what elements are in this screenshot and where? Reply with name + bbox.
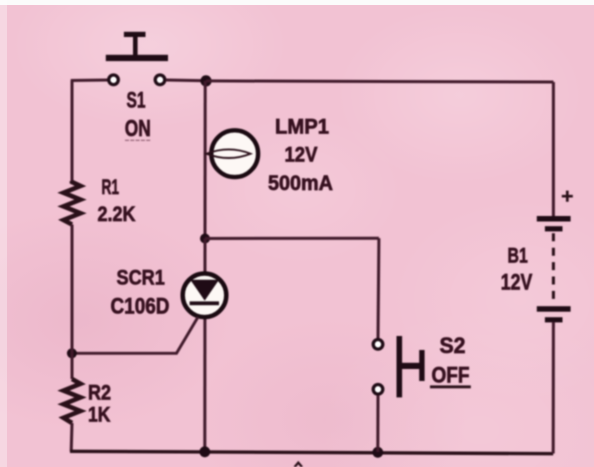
- switch S1 button bar: [106, 55, 168, 61]
- SCR1 gate wire: [72, 317, 198, 353]
- svg-text:R2: R2: [88, 381, 111, 405]
- wire top-left horizontal to S1: [71, 79, 108, 83]
- SCR1 body: [183, 274, 227, 318]
- ON underline: [125, 139, 150, 141]
- svg-text:B1: B1: [508, 244, 528, 268]
- lamp LMP1: [211, 130, 258, 177]
- wire junction to S2 horizontal: [205, 237, 379, 240]
- svg-text:ON: ON: [125, 115, 151, 141]
- switch S2 button bar: [397, 336, 403, 397]
- wire left rail middle segment: [71, 225, 74, 380]
- svg-text:SCR1: SCR1: [117, 266, 165, 290]
- wire lamp branch vertical: [204, 81, 207, 239]
- svg-text:12V: 12V: [501, 270, 533, 295]
- wire S1 right terminal to top junction: [166, 79, 206, 83]
- svg-text:OFF: OFF: [432, 362, 470, 387]
- wire S2 branch vertical upper: [377, 238, 381, 338]
- battery B1 bottom short plate: [545, 317, 563, 322]
- svg-text:2.2K: 2.2K: [98, 202, 137, 226]
- switch S1 right terminal: [155, 75, 165, 85]
- wire right rail upper: [552, 82, 555, 217]
- battery B1 dashed middle: [552, 233, 555, 303]
- node mid junction: [200, 234, 210, 244]
- svg-text:S1: S1: [127, 87, 146, 112]
- svg-text:12V: 12V: [285, 143, 319, 167]
- wire right rail lower: [552, 322, 555, 454]
- node SCR cathode bottom junction: [199, 446, 210, 457]
- switch S1 actuator stem: [133, 36, 138, 56]
- svg-text:C106D: C106D: [111, 294, 170, 319]
- switch S2 actuator stem: [402, 363, 420, 369]
- battery B1 bottom long plate: [537, 306, 571, 312]
- wire left rail upper segment: [71, 81, 74, 182]
- resistor R1: [64, 181, 81, 225]
- svg-text:R1: R1: [102, 175, 120, 199]
- OFF underline: [430, 385, 471, 388]
- svg-text:S2: S2: [440, 333, 466, 358]
- node S2 bottom junction: [372, 447, 383, 458]
- node top junction: [200, 75, 211, 86]
- wire bottom rail: [70, 451, 553, 453]
- switch S1 actuator cap: [124, 32, 146, 37]
- lamp LMP1 lens: [207, 149, 251, 158]
- battery B1 top long plate: [537, 216, 571, 222]
- caption mark bottom: [295, 463, 302, 467]
- svg-text:500mA: 500mA: [268, 171, 333, 195]
- switch S1 left terminal: [109, 75, 119, 85]
- wire left rail lower segment: [70, 423, 74, 452]
- switch S2 actuator cap: [419, 350, 424, 381]
- svg-text:LMP1: LMP1: [275, 115, 329, 139]
- wire S2 bottom to bottom rail: [376, 395, 379, 452]
- resistor R2: [64, 379, 81, 423]
- SCR1 anode triangle: [190, 280, 219, 301]
- wire SCR branch vertical: [203, 239, 206, 452]
- battery B1 top short plate: [545, 226, 563, 231]
- wire top rail: [206, 81, 553, 82]
- switch S2 top terminal: [373, 340, 383, 350]
- svg-text:1K: 1K: [88, 403, 111, 427]
- switch S2 bottom terminal: [373, 385, 383, 395]
- SCR1 cathode bar: [190, 301, 219, 305]
- node gate junction: [67, 348, 77, 358]
- battery B1 plus sign: [562, 191, 573, 202]
